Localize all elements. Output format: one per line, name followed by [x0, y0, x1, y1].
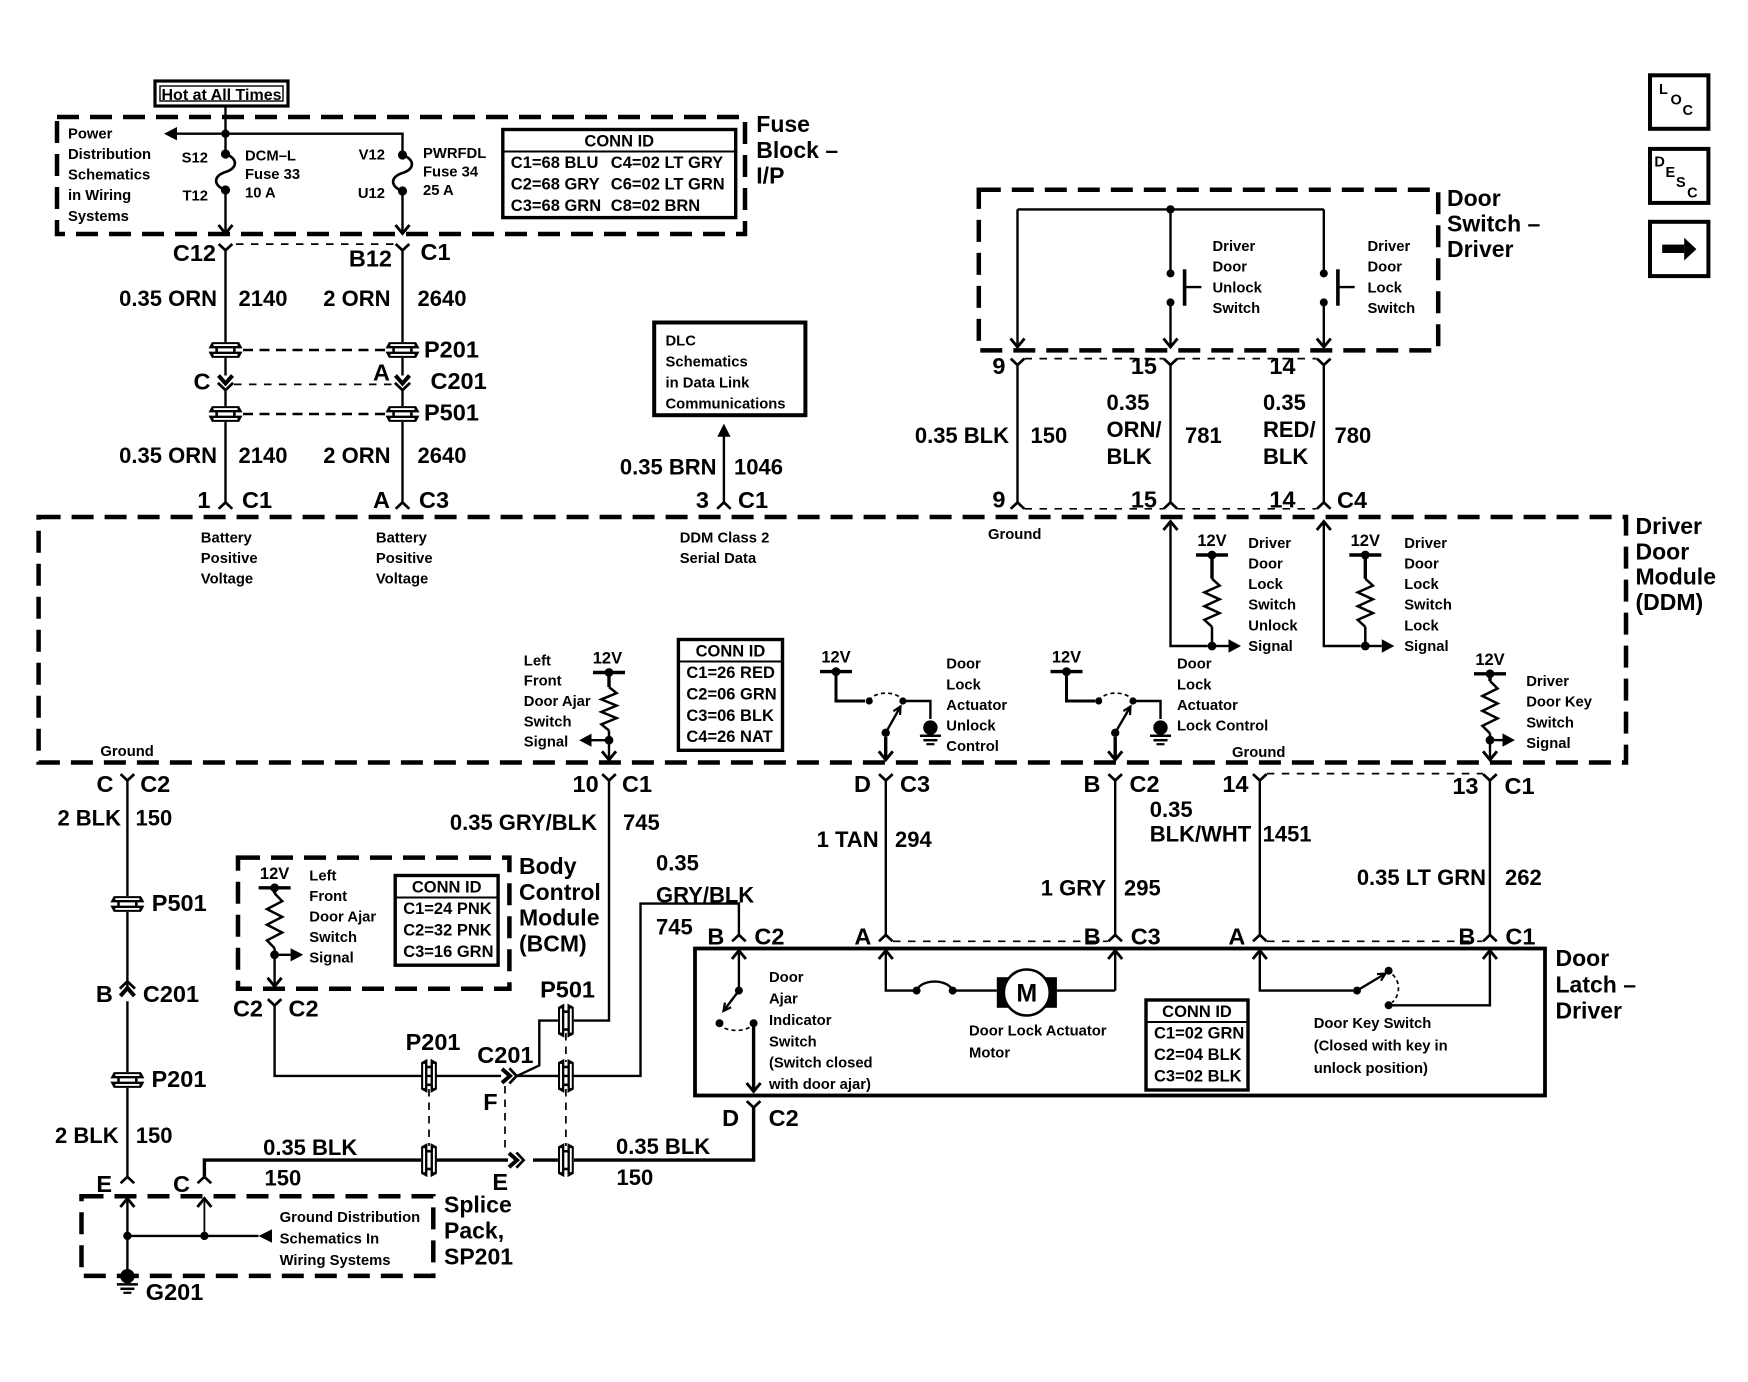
connector DDM pin 15	[1164, 502, 1178, 508]
svg-text:Power: Power	[68, 126, 113, 142]
svg-text:2140: 2140	[239, 443, 288, 468]
svg-text:2 BLK: 2 BLK	[57, 806, 121, 831]
connector C201 pin C	[218, 376, 233, 391]
wire 150 to splice C	[204, 1160, 421, 1177]
wire door switch feed bus	[1018, 208, 1324, 210]
nav box DESC	[1650, 149, 1708, 203]
connector splice pin C	[198, 1177, 212, 1183]
svg-text:Latch –: Latch –	[1556, 971, 1637, 997]
connector door switch pin 9	[1011, 359, 1025, 365]
svg-text:Door: Door	[1636, 538, 1690, 564]
CONN ID table DDM	[678, 640, 782, 751]
svg-text:Signal: Signal	[1404, 639, 1448, 655]
svg-text:Switch: Switch	[309, 930, 357, 946]
svg-text:Door Key: Door Key	[1526, 695, 1593, 711]
svg-text:0.35: 0.35	[1263, 390, 1306, 415]
connector C201 pin E	[509, 1153, 524, 1168]
svg-text:E: E	[96, 1171, 112, 1197]
svg-text:C3=16 GRN: C3=16 GRN	[403, 943, 493, 961]
svg-text:C1=68 BLU: C1=68 BLU	[511, 154, 599, 172]
svg-text:(Switch closed: (Switch closed	[769, 1056, 873, 1072]
connector C201 pin B	[120, 981, 135, 996]
svg-text:A: A	[1228, 924, 1245, 950]
connector DDM pin 14 bottom	[1253, 774, 1267, 780]
svg-text:C2=04 BLK: C2=04 BLK	[1154, 1046, 1242, 1064]
svg-text:2140: 2140	[239, 286, 288, 311]
svg-text:Lock: Lock	[1368, 280, 1403, 296]
svg-text:C2: C2	[769, 1105, 799, 1131]
CONN ID table latch	[1146, 1000, 1248, 1090]
svg-text:O: O	[1671, 93, 1682, 109]
svg-text:C4: C4	[1337, 487, 1367, 513]
arrow at door switch border pin 9	[1011, 339, 1025, 348]
svg-text:2 BLK: 2 BLK	[55, 1123, 119, 1148]
svg-text:Voltage: Voltage	[201, 572, 253, 588]
svg-text:Door: Door	[769, 970, 804, 986]
switch arm door key	[1357, 974, 1386, 991]
arrow to Ground Distribution Schematics	[259, 1229, 273, 1243]
svg-text:Hot at All Times: Hot at All Times	[161, 87, 281, 104]
12V rail actuator lock	[1051, 670, 1083, 673]
svg-text:Communications: Communications	[666, 396, 786, 412]
svg-text:Lock: Lock	[1177, 677, 1212, 693]
dashed connector line C12-B12	[236, 243, 394, 245]
svg-text:Door: Door	[946, 657, 981, 673]
svg-text:C1=24 PNK: C1=24 PNK	[403, 900, 492, 918]
svg-text:P201: P201	[152, 1066, 207, 1092]
junction BCM signal node	[270, 950, 279, 959]
svg-text:B: B	[96, 981, 113, 1007]
dashed connector line C201	[234, 383, 394, 385]
svg-text:Control: Control	[946, 739, 999, 755]
arrow at BCM border pin C2	[268, 978, 282, 987]
svg-text:Signal: Signal	[309, 951, 353, 967]
svg-text:C2=32 PNK: C2=32 PNK	[403, 921, 492, 939]
wire 2640 upper	[401, 250, 403, 342]
svg-text:C1=02 GRN: C1=02 GRN	[1154, 1025, 1244, 1043]
svg-text:150: 150	[617, 1165, 654, 1190]
svg-text:Door Ajar: Door Ajar	[524, 694, 591, 710]
svg-text:12V: 12V	[1052, 649, 1081, 667]
svg-text:0.35 GRY/BLK: 0.35 GRY/BLK	[450, 810, 597, 835]
svg-text:C201: C201	[477, 1042, 533, 1068]
svg-text:C201: C201	[431, 368, 487, 394]
arrow inside splice pin E	[120, 1199, 134, 1208]
arrow exit at fuse block border	[396, 225, 410, 234]
12V rail actuator unlock	[820, 670, 852, 673]
arrow inside latch pin A key	[1253, 951, 1267, 960]
switch arm actuator lock	[1115, 707, 1130, 733]
svg-text:Wiring Systems: Wiring Systems	[280, 1253, 391, 1269]
wire 781 to DDM pin 15	[1169, 365, 1171, 502]
svg-text:C8=02 BRN: C8=02 BRN	[611, 197, 700, 215]
arrow inside DDM pin 15	[1164, 522, 1178, 531]
wire 1046 serial data	[723, 436, 725, 502]
grommet P201 bottom	[421, 1143, 437, 1177]
connector C201 pin A	[395, 376, 410, 391]
svg-text:Battery: Battery	[201, 530, 253, 546]
svg-text:Lock: Lock	[1404, 618, 1439, 634]
connector DDM pin D C3	[879, 774, 893, 780]
svg-text:C3=06 BLK: C3=06 BLK	[686, 707, 774, 725]
svg-text:780: 780	[1335, 423, 1372, 448]
svg-text:25 A: 25 A	[423, 183, 454, 199]
contact unlock right	[899, 697, 906, 704]
svg-text:Module: Module	[519, 905, 600, 931]
svg-text:C1: C1	[421, 239, 451, 265]
dashed arc key switch	[1392, 975, 1398, 1003]
svg-text:Signal: Signal	[1248, 639, 1292, 655]
ground actuator unlock	[920, 720, 941, 744]
12V rail pin 14 resistor	[1349, 553, 1381, 556]
contact lock switch lower	[1320, 298, 1328, 306]
dashed connector line DDM 9-15	[1025, 508, 1164, 510]
svg-text:Pack,: Pack,	[444, 1218, 504, 1244]
svg-text:Lock: Lock	[1404, 577, 1439, 593]
svg-text:0.35 BLK: 0.35 BLK	[616, 1134, 710, 1159]
svg-text:0.35 BLK: 0.35 BLK	[915, 423, 1009, 448]
connector DDM pin 9	[1011, 502, 1025, 508]
svg-text:Left: Left	[524, 653, 551, 669]
arrow to DLC	[717, 424, 730, 437]
svg-text:13: 13	[1452, 773, 1478, 799]
svg-text:Driver: Driver	[1447, 236, 1514, 262]
svg-text:BLK/WHT: BLK/WHT	[1150, 822, 1252, 847]
svg-text:B12: B12	[349, 246, 392, 272]
wire actuator lock to pin B	[1113, 737, 1116, 758]
Hot at All Times box	[155, 81, 288, 106]
svg-text:C3=68 GRN: C3=68 GRN	[511, 197, 601, 215]
svg-text:C: C	[194, 369, 211, 395]
connector latch pin B C3	[1108, 935, 1122, 941]
connector latch pin A motor	[879, 935, 893, 941]
arrow at DDM border pin B	[1108, 751, 1122, 760]
svg-text:Door: Door	[1213, 260, 1248, 276]
wire 745 P501 to C201	[517, 1021, 558, 1076]
svg-text:C201: C201	[143, 981, 199, 1007]
svg-text:DDM Class 2: DDM Class 2	[680, 530, 770, 546]
junction pin 15 signal node	[1208, 642, 1217, 651]
svg-text:E: E	[1666, 165, 1676, 181]
svg-text:12V: 12V	[1475, 651, 1504, 669]
wire 150 to C201	[126, 912, 128, 987]
svg-text:Motor: Motor	[969, 1046, 1010, 1062]
svg-text:M: M	[1016, 980, 1037, 1008]
wire to ajar switch	[738, 951, 740, 988]
wire fuse 34 output	[401, 191, 403, 231]
svg-text:745: 745	[656, 915, 693, 940]
svg-text:C2: C2	[289, 996, 319, 1022]
dashed link C201 E-F	[504, 1086, 506, 1150]
svg-text:unlock position): unlock position)	[1314, 1061, 1428, 1077]
wire C to splice node	[203, 1199, 205, 1236]
svg-text:262: 262	[1505, 865, 1542, 890]
svg-text:Door: Door	[1556, 945, 1610, 971]
svg-text:0.35 ORN: 0.35 ORN	[119, 286, 217, 311]
svg-text:2640: 2640	[418, 443, 467, 468]
wire 150 latch D to splice	[574, 1108, 754, 1161]
connector latch pin A key	[1253, 935, 1267, 941]
grommet P201 ground chain	[110, 1072, 144, 1088]
svg-text:10 A: 10 A	[245, 186, 276, 202]
svg-text:294: 294	[895, 827, 932, 852]
arrow inside latch pin B C3	[1108, 951, 1122, 960]
wire to signal arrow	[592, 739, 606, 741]
svg-text:in Wiring: in Wiring	[68, 188, 131, 204]
arrow signal right key switch	[1503, 733, 1516, 746]
junction actuator unlock arm	[882, 729, 890, 737]
svg-text:D: D	[722, 1105, 739, 1131]
svg-text:C2: C2	[233, 996, 263, 1022]
svg-text:Ground: Ground	[1232, 745, 1285, 761]
CONN ID table fuse block	[503, 130, 736, 218]
svg-text:Door: Door	[1248, 557, 1283, 573]
grommet P201 right	[386, 342, 420, 358]
svg-text:Front: Front	[524, 674, 562, 690]
Fuse Block I/P dashed box	[57, 117, 745, 234]
resistor pin 14	[1358, 579, 1373, 627]
svg-text:C1: C1	[1505, 924, 1535, 950]
svg-text:745: 745	[623, 810, 660, 835]
arrow signal right pin 15	[1229, 639, 1242, 652]
wire to motor	[953, 989, 997, 991]
svg-text:D: D	[1654, 155, 1664, 171]
wire 150 to P501	[126, 781, 128, 897]
svg-text:150: 150	[136, 806, 173, 831]
dashed arc actuator lock	[1099, 693, 1133, 701]
grommet P501 bottom	[558, 1143, 574, 1177]
connector pin C12 half	[219, 244, 233, 250]
svg-text:V12: V12	[359, 148, 385, 164]
svg-text:12V: 12V	[821, 649, 850, 667]
fuse F34 PWRFDL 25A	[398, 150, 407, 159]
svg-text:P501: P501	[540, 976, 595, 1002]
wire fuse 33 output	[224, 190, 226, 231]
svg-text:Driver: Driver	[1526, 674, 1569, 690]
svg-text:Fuse 33: Fuse 33	[245, 167, 300, 183]
arrow inside splice pin C	[197, 1199, 211, 1208]
svg-text:Unlock: Unlock	[1248, 618, 1298, 634]
arrow at DDM border pin 13	[1483, 751, 1497, 760]
arrow inside latch pin B C2	[732, 951, 746, 960]
svg-text:Unlock: Unlock	[1213, 280, 1263, 296]
wire key switch to pin B C1	[1389, 952, 1490, 1005]
svg-text:14: 14	[1222, 771, 1248, 797]
svg-text:15: 15	[1131, 353, 1157, 379]
svg-text:B: B	[1458, 924, 1475, 950]
wire 1451 pin 14 to latch	[1259, 781, 1261, 935]
svg-text:0.35: 0.35	[1107, 390, 1150, 415]
svg-text:A: A	[373, 360, 390, 386]
svg-text:C1: C1	[622, 771, 652, 797]
svg-text:14: 14	[1269, 353, 1295, 379]
svg-text:Switch –: Switch –	[1447, 211, 1541, 237]
ground actuator lock	[1150, 720, 1171, 744]
wire E to G201	[126, 1199, 128, 1277]
svg-text:Switch: Switch	[1404, 598, 1452, 614]
Driver Door Module dashed box	[39, 517, 1626, 763]
svg-text:Control: Control	[519, 879, 601, 905]
resistor pin 10	[601, 687, 616, 731]
svg-text:Serial Data: Serial Data	[680, 551, 757, 567]
Door Switch - Driver dashed box	[979, 190, 1438, 351]
svg-text:12V: 12V	[593, 650, 622, 668]
contact motor right	[949, 987, 957, 995]
arrow at DDM border pin 10	[602, 751, 616, 760]
dashed link P501 grommets	[565, 1033, 567, 1062]
wire ajar switch to pin D	[752, 1023, 755, 1089]
wire 2140 upper	[224, 250, 226, 342]
svg-text:Driver: Driver	[1368, 239, 1411, 255]
wire lock switch to pin 14	[1323, 306, 1325, 345]
svg-text:0.35 BLK: 0.35 BLK	[263, 1135, 357, 1160]
wire 780 to DDM pin 14	[1323, 365, 1325, 502]
svg-text:C2=06 GRN: C2=06 GRN	[686, 685, 776, 703]
svg-text:Switch: Switch	[1368, 301, 1416, 317]
wire 150 to DDM pin 9	[1016, 365, 1018, 502]
contact motor left	[913, 987, 921, 995]
wire pin A to key switch	[1260, 951, 1353, 991]
svg-text:2640: 2640	[418, 286, 467, 311]
svg-text:(BCM): (BCM)	[519, 930, 587, 956]
arrow inside DDM pin 14	[1317, 522, 1331, 531]
svg-text:Splice: Splice	[444, 1192, 512, 1218]
wire 262 pin 13 to latch	[1489, 781, 1491, 935]
switch arm door ajar	[724, 991, 739, 1011]
svg-text:CONN ID: CONN ID	[584, 133, 654, 151]
svg-text:12V: 12V	[260, 865, 289, 883]
wire to signal arrow 14	[1369, 645, 1382, 647]
svg-text:G201: G201	[146, 1279, 204, 1305]
svg-text:Ground Distribution: Ground Distribution	[280, 1210, 421, 1226]
grommet P201 left	[209, 342, 243, 358]
wire 12V to lock contact	[1067, 672, 1096, 701]
contact lock right	[1129, 697, 1136, 704]
svg-text:Lock: Lock	[946, 677, 981, 693]
wire pin 15 to resistor	[1171, 522, 1208, 647]
Body Control Module dashed box	[238, 858, 509, 989]
svg-text:0.35 ORN: 0.35 ORN	[119, 443, 217, 468]
svg-text:1451: 1451	[1263, 822, 1312, 847]
svg-text:C3: C3	[419, 487, 449, 513]
svg-text:Body: Body	[519, 853, 577, 879]
svg-text:12V: 12V	[1351, 532, 1380, 550]
dashed connector line DDM 15-14	[1178, 508, 1317, 510]
arrow to Power Distribution Schematics	[164, 127, 177, 140]
dashed link P201	[243, 349, 385, 352]
svg-text:C: C	[1687, 185, 1698, 201]
wire 150 to P201	[126, 1001, 128, 1072]
svg-text:I/P: I/P	[756, 163, 784, 189]
CONN ID table BCM	[395, 876, 498, 966]
svg-text:Unlock: Unlock	[946, 719, 996, 735]
wire motor to pin B C3	[1057, 989, 1115, 991]
dashed connector line latch A-B motor	[893, 940, 1108, 942]
arrow inside latch pin A motor	[879, 951, 893, 960]
svg-text:C2=68 GRY: C2=68 GRY	[511, 175, 600, 193]
svg-text:Systems: Systems	[68, 209, 129, 225]
wire pin 10 to border	[608, 744, 610, 758]
connector DDM pin 14 C4	[1317, 502, 1331, 508]
svg-text:C: C	[1683, 103, 1694, 119]
svg-text:Ground: Ground	[100, 744, 153, 760]
wire switch common to pin 9	[1016, 209, 1018, 345]
contact key switch left	[1353, 987, 1361, 995]
svg-text:Distribution: Distribution	[68, 147, 151, 163]
svg-text:C4=26 NAT: C4=26 NAT	[686, 728, 772, 746]
resistor pin 15	[1204, 579, 1219, 627]
arrow at latch border pin D	[747, 1083, 761, 1092]
arrow at DDM border pin D	[879, 751, 893, 760]
arrow signal right BCM	[291, 948, 304, 961]
arrow exit at fuse block border	[219, 225, 233, 234]
svg-text:Ground: Ground	[988, 527, 1041, 543]
connector latch pin D C2	[747, 1101, 761, 1107]
wire 2640 lower	[401, 422, 403, 502]
wire to P501 left	[224, 390, 226, 406]
junction feed bus	[1166, 205, 1174, 213]
contact key switch pivot	[1385, 967, 1393, 975]
wire 2140 lower	[224, 422, 226, 502]
svg-text:9: 9	[992, 353, 1005, 379]
svg-text:U12: U12	[358, 186, 385, 202]
dashed connector line 14-13	[1267, 773, 1483, 775]
svg-text:RED/: RED/	[1263, 417, 1316, 442]
grommet P501 mid upper	[558, 1004, 574, 1038]
contact key switch lower	[1385, 1001, 1393, 1009]
svg-text:P501: P501	[424, 400, 479, 426]
arrow signal right pin 14	[1382, 639, 1395, 652]
svg-text:150: 150	[136, 1123, 173, 1148]
wire to C201 right	[401, 358, 403, 376]
wire 150 segment 2	[437, 1158, 508, 1161]
contact ajar switch right	[750, 1019, 758, 1027]
svg-text:BLK: BLK	[1107, 444, 1152, 469]
contact lock switch upper	[1320, 269, 1328, 277]
svg-text:C1: C1	[242, 487, 272, 513]
arrow at door switch border pin 14	[1317, 339, 1331, 348]
fuse F33 DCM-L 10A	[221, 149, 230, 158]
wire actuator unlock to pin D	[884, 737, 887, 758]
svg-text:Door: Door	[1177, 657, 1212, 673]
junction feed node	[221, 130, 229, 138]
svg-text:1 GRY: 1 GRY	[1041, 876, 1107, 901]
nav box forward arrow	[1650, 222, 1708, 276]
svg-text:C12: C12	[173, 240, 216, 266]
svg-text:Actuator: Actuator	[1177, 698, 1238, 714]
svg-text:DLC: DLC	[666, 334, 697, 350]
svg-text:Fuse: Fuse	[756, 111, 810, 137]
12V rail BCM resistor	[259, 886, 291, 889]
svg-text:1046: 1046	[734, 455, 783, 480]
wire up to pin B C3	[1114, 952, 1116, 991]
svg-text:SP201: SP201	[444, 1244, 513, 1270]
arrow inside latch pin B C1	[1483, 951, 1497, 960]
svg-text:12V: 12V	[1197, 532, 1226, 550]
wire to unlock switch	[1169, 209, 1171, 269]
dashed connector line latch A-B key	[1267, 940, 1483, 942]
svg-text:P201: P201	[406, 1029, 461, 1055]
svg-text:Ajar: Ajar	[769, 992, 798, 1008]
svg-text:Fuse 34: Fuse 34	[423, 165, 479, 181]
svg-text:2 ORN: 2 ORN	[323, 286, 390, 311]
wire to BCM signal arrow	[279, 954, 291, 956]
12V rail pin 15 resistor	[1196, 553, 1228, 556]
wire lock to ground	[1133, 701, 1161, 719]
wire 745 BCM to C201	[275, 1006, 501, 1076]
svg-text:(Closed with key in: (Closed with key in	[1314, 1038, 1448, 1054]
svg-text:Door Ajar: Door Ajar	[309, 910, 376, 926]
